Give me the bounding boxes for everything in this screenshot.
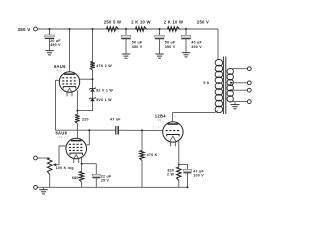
diode D1 zener 82 V 1 W [89,88,96,92]
input terminal J2 [34,185,38,189]
wire secondary tap 1 [229,68,248,70]
wire V2 grid lead [80,78,94,80]
wire D2 to cathode node [76,101,92,111]
capacitor C1 20 uF 450 V [45,28,55,49]
wire secondary tap 2 [230,82,247,84]
input terminal J1 [34,156,38,160]
capacitor C4 40 uF 350 V [181,28,191,51]
wire input to pot [37,157,49,159]
wire rail to R4 [92,28,94,62]
wire D1 to D2 [92,92,94,98]
svg-text:47 nF: 47 nF [110,118,121,122]
label V2 6AU6 [54,64,66,73]
label C6 value [110,118,121,122]
label R1 value [104,20,121,25]
svg-text:9: 9 [175,115,177,118]
resistor R8 470 K [140,129,145,187]
svg-text:82 V 1 W: 82 V 1 W [96,88,113,92]
wire secondary tap 3 [230,89,247,91]
svg-text:100 K log: 100 K log [56,166,74,170]
tube V1 6AU6 internals [69,140,84,163]
label D1 value [96,88,113,92]
wire V3 plate to transformer [172,111,218,122]
label V3 12B4 [155,113,166,122]
svg-text:25 V: 25 V [101,178,110,182]
wire top rail [37,28,218,30]
capacitor C3 50 uF 350 V [155,28,165,53]
transformer T1 primary [215,59,223,112]
resistor R5 220 [75,115,80,124]
terminal tap 3 [247,88,251,92]
label D2 value [96,98,112,102]
pin labels V1 [67,144,86,159]
label C7 value [193,169,204,177]
label T1 primary 5 K [203,81,209,85]
svg-text:V2: V2 [157,118,161,122]
tube V1 6AU6 envelope [66,138,87,159]
node B+ 350 V terminal [17,27,37,32]
label R7 value [56,166,74,170]
ground under C2 [122,53,131,59]
label C4 value [191,41,202,49]
svg-text:100 V: 100 V [193,173,204,177]
wire B+ right drop to transformer [217,29,219,60]
label R3 value [164,20,183,25]
wire C6 to V3 grid [119,129,163,131]
transformer T1 secondary [227,68,233,102]
wire V1 cathode lead [81,157,97,164]
wire output node to V1 screen [87,129,91,145]
wire V3 cathode lead [178,140,180,164]
svg-text:2 - 7: 2 - 7 [153,126,160,130]
label R8 value [147,153,158,157]
ground secondary [231,102,240,109]
svg-text:350 V: 350 V [165,45,176,49]
node V3 cathode [178,164,180,166]
resistor R2 2 K 10 W [136,27,147,32]
svg-text:V1: V1 [58,135,62,139]
svg-text:250 V: 250 V [197,20,209,25]
resistor R9 820 2 W [177,165,182,188]
label R6 value [72,176,79,180]
wire ground rail [37,186,188,188]
svg-text:680: 680 [72,176,79,180]
capacitor C6 47 nF [116,126,118,135]
label C2 value [132,41,143,49]
resistor R3 2 K 10 W [168,27,180,32]
svg-text:450 V: 450 V [132,45,143,49]
svg-text:3 - 4: 3 - 4 [167,141,173,144]
resistor R6 680 [79,164,84,188]
svg-text:V2: V2 [57,69,61,73]
label R2 value [131,20,150,25]
terminal tap 1 [247,67,251,71]
ground under C4 [182,51,191,57]
wire R4 to grid node [92,70,94,89]
svg-text:f: f [78,89,79,92]
label R5 value [82,117,89,121]
tube V2 6AU6 envelope [59,72,79,92]
transformer T1 core [224,57,226,115]
svg-text:450 V: 450 V [50,43,61,47]
tube V3 12B4 internals [166,123,181,146]
svg-text:250 5 W: 250 5 W [104,20,121,25]
pin labels V3 [153,115,176,144]
svg-text:47K 2 W: 47K 2 W [96,64,112,68]
tube V2 6AU6 internals [62,73,77,96]
wire R5 to V1 plate [76,124,78,139]
label C1 value [50,39,61,47]
ground input [39,187,48,194]
capacitor C5 22 uF 25 V [92,164,100,188]
label V1 6AU6 [55,131,67,140]
resistor R4 47K 2 W [90,62,95,71]
terminal tap 4 [247,100,251,104]
svg-text:2 K 10 W: 2 K 10 W [131,20,150,25]
capacitor C2 50 uF 450 V [121,28,131,53]
pin labels V2 [61,77,79,92]
wiper arrow [53,163,57,166]
ground under C3 [155,53,164,59]
wire V1 grid to wiper [56,146,66,165]
label R4 value [96,64,112,68]
label C3 value [165,41,176,49]
label node 250 V [197,20,209,25]
potentiometer R7 100 K log [47,158,52,187]
ground under C1 [45,49,54,55]
svg-text:f: f [85,155,86,158]
resistor R1 250 5 W [107,27,119,32]
diode D2 zener 5V6 1 W [89,97,96,101]
wire secondary tap 4 [229,101,248,103]
capacitor C7 47 uF 100 V [179,165,192,189]
svg-text:5 K: 5 K [203,81,209,85]
tube V3 12B4 envelope [163,122,183,142]
wire rail to V2 plate [69,28,71,72]
terminal tap 2 [247,81,251,85]
svg-text:2 W: 2 W [167,173,174,177]
wire V2 g1 to output node [56,80,116,130]
svg-text:470 K: 470 K [147,153,158,157]
label R9 value [167,168,174,176]
label C5 value [101,174,112,182]
wire V2 cathode lead [76,90,78,114]
svg-text:220: 220 [82,117,89,121]
svg-text:5V6 1 W: 5V6 1 W [96,98,112,102]
svg-text:350 V: 350 V [191,45,202,49]
svg-text:2 K 10 W: 2 K 10 W [164,20,183,25]
svg-text:350 V: 350 V [17,27,30,32]
